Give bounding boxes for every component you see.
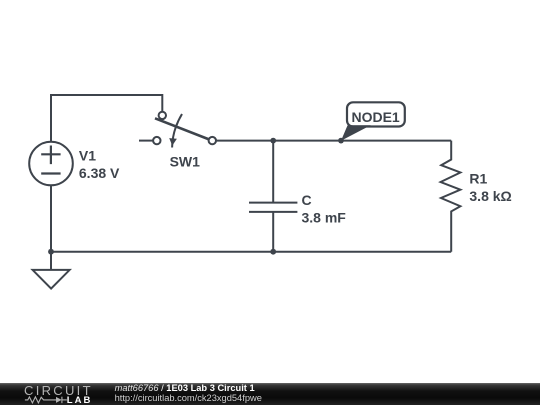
svg-text:3.8 kΩ: 3.8 kΩ: [469, 188, 511, 204]
svg-text:LAB: LAB: [67, 395, 93, 405]
svg-text:3.8 mF: 3.8 mF: [302, 209, 347, 225]
svg-text:NODE1: NODE1: [351, 109, 399, 125]
svg-text:V1: V1: [79, 148, 96, 164]
svg-text:SW1: SW1: [170, 153, 201, 169]
svg-text:6.38 V: 6.38 V: [79, 165, 120, 181]
svg-text:R1: R1: [469, 170, 487, 186]
svg-text:C: C: [302, 192, 312, 208]
